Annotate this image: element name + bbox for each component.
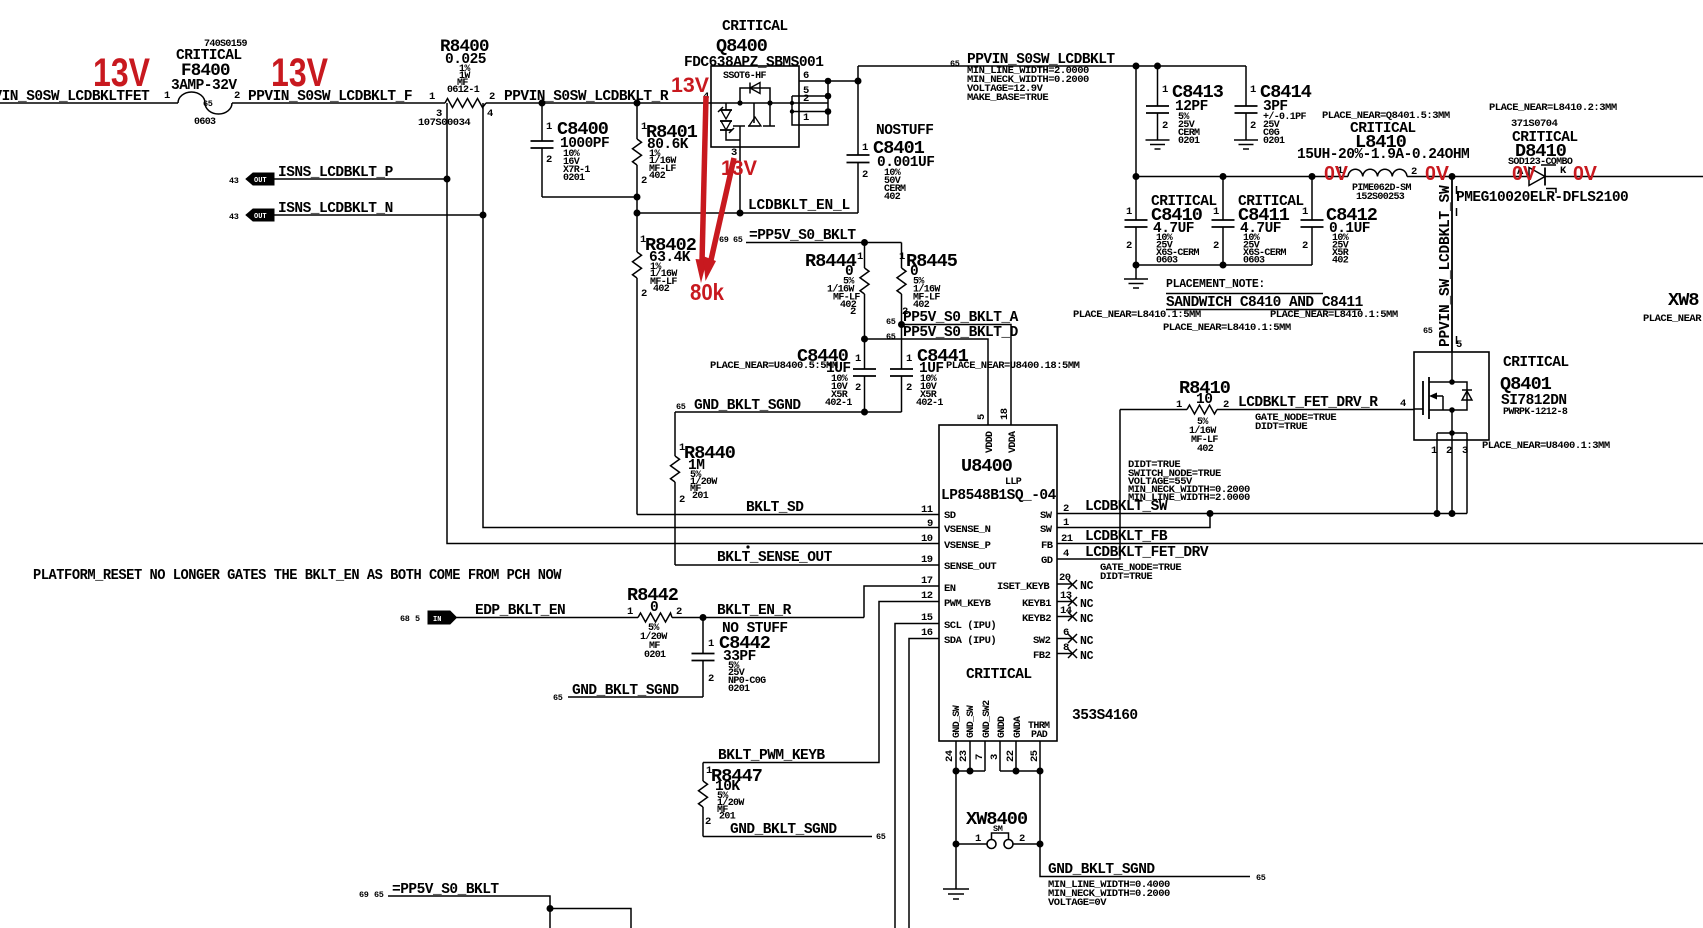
svg-text:BKLT_SENSE_OUT: BKLT_SENSE_OUT (717, 550, 833, 566)
svg-text:65: 65 (1423, 326, 1433, 336)
svg-text:80k: 80k (690, 279, 724, 305)
svg-text:69: 69 (719, 235, 729, 245)
connector OUT flag ISNS_LCDBKLT_N (229, 201, 483, 222)
svg-text:402: 402 (649, 171, 666, 182)
capacitor C8401 0.001UF NOSTUFF (847, 81, 935, 213)
svg-text:65: 65 (203, 99, 213, 109)
svg-text:4: 4 (487, 108, 493, 120)
svg-text:GND_SW: GND_SW (966, 705, 977, 738)
wire mid rail (inductor input) (1136, 176, 1348, 178)
svg-text:65: 65 (676, 402, 686, 412)
svg-text:65: 65 (876, 832, 886, 842)
capacitor C8400 1000PF (531, 103, 610, 197)
svg-text:402-1: 402-1 (916, 398, 943, 409)
svg-text:Q8400: Q8400 (716, 36, 768, 57)
svg-text:107S00034: 107S00034 (418, 117, 470, 129)
svg-text:0201: 0201 (644, 650, 666, 661)
svg-text:BKLT_SD: BKLT_SD (746, 500, 804, 516)
svg-text:1: 1 (975, 833, 981, 845)
capacitor C8412 0.1UF (1301, 177, 1378, 267)
Q8401 source (1429, 409, 1452, 411)
svg-text:2: 2 (850, 306, 856, 318)
node ISNS_LCDBKLT_N junction (480, 212, 487, 219)
svg-text:2: 2 (1250, 120, 1256, 132)
annotation red arrow (diagonal) (703, 158, 734, 281)
svg-text:13: 13 (1060, 590, 1072, 602)
svg-text:=PP5V_S0_BKLT: =PP5V_S0_BKLT (749, 228, 856, 244)
svg-text:NC: NC (1080, 580, 1094, 593)
svg-text:15: 15 (921, 612, 933, 624)
pin NC SW2 6 (1057, 634, 1077, 643)
svg-text:65: 65 (1256, 873, 1266, 883)
wire PPVIN_S0SW_LCDBKLT_F (232, 89, 445, 105)
svg-text:GD: GD (1041, 555, 1053, 567)
svg-text:SW: SW (1040, 524, 1053, 536)
svg-text:PLACE_NEAR=L8410.1:5MM: PLACE_NEAR=L8410.1:5MM (1073, 309, 1201, 321)
wire R8400 pin4 kelvin sense (vertical to VSENSE_N) (483, 103, 939, 528)
wire LCDBKLT_EN_L (637, 198, 858, 217)
svg-text:353S4160: 353S4160 (1072, 708, 1138, 724)
ground (XW8400 pin1) (943, 844, 969, 899)
capacitor C8441 1UF (890, 325, 1080, 413)
svg-text:15UH-20%-1.9A-0.24OHM: 15UH-20%-1.9A-0.24OHM (1297, 147, 1469, 163)
svg-text:IN: IN (433, 616, 441, 624)
fuse F8400 (164, 39, 247, 128)
svg-text:2: 2 (1213, 240, 1219, 252)
svg-text:2: 2 (803, 93, 809, 105)
wire =PP5V_S0_BKLT (bottom) (359, 882, 631, 928)
svg-text:0612-1: 0612-1 (447, 85, 480, 96)
wire GND_BKLT_SGND (C8442) (553, 683, 703, 703)
svg-text:LCDBKLT_EN_L: LCDBKLT_EN_L (748, 198, 850, 214)
svg-text:5: 5 (1456, 339, 1462, 351)
resistor R8442 0 (627, 585, 682, 661)
svg-text:PMEG10020ELR-DFLS2100: PMEG10020ELR-DFLS2100 (1456, 190, 1628, 206)
svg-text:4: 4 (1063, 548, 1069, 560)
svg-text:ISNS_LCDBKLT_P: ISNS_LCDBKLT_P (278, 165, 394, 181)
svg-text:2: 2 (906, 382, 912, 394)
svg-text:1: 1 (708, 638, 714, 650)
svg-text:DIDT=TRUE: DIDT=TRUE (1255, 421, 1307, 433)
wire PPVIN vertical to mid rail (1135, 66, 1137, 177)
Q8401 channel and gate bars (1428, 377, 1430, 419)
svg-text:ISET_KEYB: ISET_KEYB (997, 581, 1050, 593)
svg-text:SENSE_OUT: SENSE_OUT (944, 561, 996, 573)
svg-text:18: 18 (999, 408, 1011, 420)
svg-text:VSENSE_P: VSENSE_P (944, 540, 991, 552)
svg-text:0603: 0603 (194, 117, 216, 128)
node R8401 top junction (634, 100, 641, 107)
svg-text:10: 10 (1196, 392, 1212, 408)
svg-text:43: 43 (229, 212, 239, 222)
svg-text:7: 7 (974, 754, 986, 760)
svg-text:22: 22 (1005, 750, 1017, 762)
svg-text:2: 2 (705, 816, 711, 828)
jumper XW8400 (953, 771, 1044, 849)
svg-text:2: 2 (641, 175, 647, 187)
svg-text:13V: 13V (93, 51, 150, 95)
svg-text:PLACE_NEAR=L8410.2:3MM: PLACE_NEAR=L8410.2:3MM (1489, 102, 1617, 114)
svg-text:EDP_BKLT_EN: EDP_BKLT_EN (475, 603, 565, 619)
svg-text:2: 2 (489, 91, 495, 103)
svg-text:201: 201 (692, 491, 709, 502)
svg-text:402: 402 (1197, 444, 1214, 455)
svg-text:LP8548B1SQ_-04: LP8548B1SQ_-04 (941, 488, 1057, 504)
svg-text:SW: SW (1040, 510, 1053, 522)
svg-text:1: 1 (546, 121, 552, 133)
svg-text:MIN_LINE_WIDTH=2.0000: MIN_LINE_WIDTH=2.0000 (1128, 492, 1250, 504)
wire LCDBKLT_FET_DRV_R label (1238, 395, 1378, 433)
wire =PP5V_S0_BKLT (upper) (719, 228, 902, 246)
resistor R8402 63.4K (633, 213, 697, 515)
wire C8400 bottom to R8401 bottom (542, 196, 637, 198)
wire PPVIN_S0SW_LCDBKLT top rail (858, 52, 1246, 104)
wire Q8401 pin3 to LCDBKLT_SW (1466, 433, 1468, 514)
svg-text:OUT: OUT (254, 177, 267, 185)
op-amp U8400 LP8548B1SQ (backlight driver IC) (921, 408, 1073, 741)
svg-text:402: 402 (1332, 256, 1349, 267)
svg-text:5: 5 (415, 614, 420, 624)
svg-text:VSENSE_N: VSENSE_N (944, 524, 991, 536)
svg-text:GND_BKLT_SGND: GND_BKLT_SGND (1048, 862, 1155, 878)
svg-text:65: 65 (950, 59, 960, 69)
svg-text:21: 21 (1061, 533, 1073, 545)
placement note text (1073, 278, 1398, 334)
Q8401 body diode (1452, 382, 1467, 410)
svg-text:SSOT6-HF: SSOT6-HF (723, 71, 766, 82)
svg-text:4: 4 (1400, 398, 1406, 410)
svg-text:2: 2 (679, 494, 685, 506)
svg-text:GND_BKLT_SGND: GND_BKLT_SGND (730, 822, 837, 838)
svg-text:KEYB2: KEYB2 (1022, 613, 1051, 625)
svg-text:1: 1 (1302, 206, 1308, 218)
svg-text:65: 65 (374, 890, 384, 900)
svg-text:43: 43 (229, 176, 239, 186)
svg-text:EN: EN (944, 583, 956, 595)
capacitor C8414 3PF (1235, 66, 1312, 147)
svg-text:201: 201 (719, 812, 736, 823)
svg-text:371S0704: 371S0704 (1511, 118, 1558, 130)
node C8400 top junction (539, 100, 546, 107)
svg-text:1: 1 (1063, 517, 1069, 529)
wire PPVIN_SW_LCDBKLT_SW vertical (1423, 177, 1462, 353)
svg-text:2: 2 (1302, 240, 1308, 252)
svg-text:402: 402 (653, 284, 670, 295)
svg-text:PPVIN_S0SW_LCDBKLT_R: PPVIN_S0SW_LCDBKLT_R (504, 89, 669, 105)
svg-text:SW2: SW2 (1033, 635, 1051, 647)
svg-text:1: 1 (1250, 84, 1256, 96)
svg-text:1: 1 (1431, 445, 1437, 457)
svg-text:PLATFORM_RESET NO LONGER GATES: PLATFORM_RESET NO LONGER GATES THE BKLT_… (33, 568, 562, 584)
svg-text:GNDD: GNDD (997, 716, 1008, 738)
svg-text:PP5V_S0_BKLT_A: PP5V_S0_BKLT_A (903, 310, 1019, 326)
svg-text:1: 1 (857, 251, 863, 263)
svg-text:0V: 0V (1512, 163, 1537, 185)
svg-text:1: 1 (906, 353, 912, 365)
resistor R8440 1M (671, 412, 736, 565)
capacitor C8410 4.7UF (1125, 177, 1217, 267)
svg-text:2: 2 (1063, 503, 1069, 515)
node (637,197) junction (634, 194, 641, 201)
inductor L8410 15UH (1297, 110, 1469, 203)
svg-text:2: 2 (862, 169, 868, 181)
svg-text:DIDT=TRUE: DIDT=TRUE (1100, 571, 1152, 583)
svg-text:1: 1 (1176, 399, 1182, 411)
svg-text:402-1: 402-1 (825, 398, 852, 409)
annotation red arrow (long) (696, 96, 708, 283)
svg-text:BKLT_EN_R: BKLT_EN_R (717, 603, 792, 619)
svg-text:1: 1 (1126, 206, 1132, 218)
wire SCL to bottom edge (895, 624, 939, 928)
svg-text:3AMP-32V: 3AMP-32V (171, 78, 237, 94)
svg-text:PLACE_NEAR=L8410.1:5MM: PLACE_NEAR=L8410.1:5MM (1270, 309, 1398, 321)
resistor R8400 0.025 (418, 37, 495, 129)
svg-text:VOLTAGE=0V: VOLTAGE=0V (1048, 897, 1107, 909)
ground (C8414) (1234, 140, 1258, 149)
diode D8410 PMEG10020ELR (1456, 102, 1628, 206)
capacitor C8442 33PF NO STUFF (692, 618, 788, 698)
svg-text:2: 2 (1019, 833, 1025, 845)
Q8400 internal zener pair (725, 103, 727, 110)
svg-text:0201: 0201 (563, 173, 585, 184)
svg-text:12: 12 (921, 590, 933, 602)
svg-text:1: 1 (855, 353, 861, 365)
Q8401 substrate arrow (1432, 395, 1443, 397)
pin NC KEYB2 14 (1057, 612, 1077, 621)
svg-text:0V: 0V (1425, 163, 1450, 185)
svg-text:3: 3 (989, 754, 1001, 760)
svg-text:LLP: LLP (1005, 477, 1022, 488)
svg-text:PPVIN_S0SW_LCDBKLT_F: PPVIN_S0SW_LCDBKLT_F (248, 89, 412, 105)
svg-text:65: 65 (886, 317, 896, 327)
svg-text:NC: NC (1080, 598, 1094, 611)
wire LCDBKLT_FB (1057, 529, 1703, 545)
svg-text:CRITICAL: CRITICAL (966, 667, 1032, 683)
wire Q8400 drain to top net (857, 66, 859, 81)
svg-text:LCDBKLT_FB: LCDBKLT_FB (1085, 529, 1168, 545)
wire GND_BKLT_SGND (mid) (675, 398, 902, 416)
wire U8400 ground pins (944, 741, 1044, 775)
svg-text:XW8: XW8 (1668, 290, 1699, 311)
svg-text:16: 16 (921, 627, 933, 639)
svg-text:2: 2 (676, 606, 682, 618)
svg-text:9: 9 (927, 518, 933, 530)
ground (C8413) (1146, 140, 1170, 149)
svg-text:65: 65 (886, 332, 896, 342)
svg-text:0201: 0201 (1263, 136, 1285, 147)
connector IN flag EDP_BKLT_EN (400, 603, 638, 624)
Q8400 pin 3 (739, 147, 741, 213)
wire BKLT_PWM_KEYB (703, 602, 939, 765)
wire GND_BKLT_SGND (XW8400 pin2) (1040, 844, 1266, 909)
svg-text:LCDBKLT_FET_DRV: LCDBKLT_FET_DRV (1085, 545, 1209, 561)
svg-text:0201: 0201 (1178, 136, 1200, 147)
ground (main caps) (1124, 265, 1148, 288)
svg-text:BKLT_PWM_KEYB: BKLT_PWM_KEYB (718, 748, 825, 764)
Q8401 source bar to pins 1,2,3 (1451, 410, 1453, 433)
pin NC FB2 8 (1057, 649, 1077, 658)
capacitor C8411 4.7UF (1212, 177, 1304, 267)
svg-text:2: 2 (641, 288, 647, 300)
svg-text:NC: NC (1080, 635, 1094, 648)
wire PPVIN_S0SW_LCDBKLTFET (top-left rail into fuse) (0, 89, 178, 105)
resistor R8445 0 (897, 243, 958, 325)
node (637,213) junction (634, 210, 641, 217)
svg-text:VDDD: VDDD (985, 431, 996, 453)
svg-text:SCL (IPU): SCL (IPU) (944, 620, 996, 632)
svg-text:5: 5 (976, 414, 988, 420)
svg-text:2: 2 (708, 673, 714, 685)
wire PP5V_S0_BKLT_A (886, 310, 1019, 425)
svg-text:GNDA: GNDA (1013, 716, 1024, 738)
svg-text:MAKE_BASE=TRUE: MAKE_BASE=TRUE (967, 92, 1048, 104)
svg-text:25: 25 (1029, 750, 1041, 762)
svg-text:Q8401: Q8401 (1500, 374, 1552, 395)
pin NC ISET_KEYB 20 (1057, 580, 1077, 589)
svg-text:PAD: PAD (1031, 730, 1048, 741)
svg-text:17: 17 (921, 575, 933, 587)
svg-text:NOSTUFF: NOSTUFF (876, 123, 933, 139)
svg-text:2: 2 (1223, 399, 1229, 411)
svg-text:65: 65 (733, 235, 743, 245)
wire mid rail after inductor (1407, 176, 1529, 178)
capacitor C8440 1UF (710, 339, 876, 412)
svg-text:SDA (IPU): SDA (IPU) (944, 635, 996, 647)
svg-text:2: 2 (1162, 120, 1168, 132)
transistor Q8401 SI7812DN (1400, 352, 1610, 457)
wire R8400 pin3 kelvin sense (vertical to VSENSE_P) (447, 103, 939, 544)
wire mid rail to right edge (1545, 176, 1703, 178)
svg-text:13V: 13V (671, 74, 709, 97)
wire LCDBKLT_FET_DRV (1057, 410, 1209, 584)
svg-text:19: 19 (921, 554, 933, 566)
wire Q8401 pin2 to LCDBKLT_SW (1451, 433, 1453, 514)
svg-text:1: 1 (164, 90, 170, 102)
svg-text:20: 20 (1059, 572, 1071, 584)
svg-text:14: 14 (1060, 605, 1072, 617)
svg-text:PWM_KEYB: PWM_KEYB (944, 598, 992, 610)
net properties LCDBKLT_SW (1128, 459, 1250, 504)
svg-text:ISNS_LCDBKLT_N: ISNS_LCDBKLT_N (278, 201, 393, 217)
svg-text:0V: 0V (1324, 163, 1349, 185)
wire BKLT_SENSE_OUT (675, 545, 939, 566)
svg-text:PLACE_NEAR=L8410.1:5MM: PLACE_NEAR=L8410.1:5MM (1163, 322, 1291, 334)
svg-text:2: 2 (1126, 240, 1132, 252)
svg-text:PLACE_NEAR: PLACE_NEAR (1643, 313, 1702, 325)
svg-text:GND_SW: GND_SW (952, 705, 963, 738)
svg-text:FB: FB (1041, 540, 1054, 552)
wire BKLT_EN_R (672, 603, 864, 621)
svg-text:OUT: OUT (254, 213, 267, 221)
node ISNS_LCDBKLT_P junction (444, 176, 451, 183)
Q8400 gate line pin 4 (711, 102, 770, 104)
capacitor C8413 12PF (1146, 66, 1224, 147)
svg-text:GND_SW2: GND_SW2 (982, 700, 993, 738)
Q8400 internal MOSFET (753, 103, 755, 123)
svg-text:LCDBKLT_FET_DRV_R: LCDBKLT_FET_DRV_R (1238, 395, 1378, 411)
svg-text:1: 1 (899, 251, 905, 263)
connector OUT flag ISNS_LCDBKLT_P (229, 165, 447, 186)
svg-text:6: 6 (803, 70, 809, 82)
svg-text:PLACEMENT_NOTE:: PLACEMENT_NOTE: (1166, 278, 1265, 291)
Q8401 pin5 drain entry (1451, 352, 1453, 382)
svg-text:8: 8 (1063, 642, 1069, 654)
wire Q8401 pin1 to LCDBKLT_SW (1436, 433, 1438, 514)
svg-text:2: 2 (234, 90, 240, 102)
resistor R8447 10K (699, 763, 763, 837)
svg-text:68: 68 (400, 614, 410, 624)
svg-text:1: 1 (627, 606, 633, 618)
svg-text:2: 2 (1446, 445, 1452, 457)
svg-text:65: 65 (553, 693, 563, 703)
svg-text:NC: NC (1080, 650, 1094, 663)
resistor R8401 80.6K (633, 103, 698, 213)
pin NC KEYB1 13 (1057, 597, 1077, 606)
svg-text:1: 1 (1162, 84, 1168, 96)
svg-text:CRITICAL: CRITICAL (722, 19, 788, 35)
wire LCDBKLT_SW (1057, 499, 1467, 517)
svg-text:PPVIN_SW_LCDBKLT_SW: PPVIN_SW_LCDBKLT_SW (1438, 185, 1454, 347)
resistor R8410 10 (1120, 378, 1414, 455)
svg-text:2: 2 (855, 382, 861, 394)
svg-text:1: 1 (429, 91, 435, 103)
svg-text:6: 6 (1063, 627, 1069, 639)
svg-text:0: 0 (650, 600, 658, 616)
wire PPVIN_S0SW_LCDBKLT_R (486, 89, 711, 105)
wire PP5V_S0_BKLT_D (861, 325, 1019, 425)
svg-text:NC: NC (1080, 613, 1094, 626)
svg-text:152S00253: 152S00253 (1356, 192, 1405, 203)
wire GND_BKLT_SGND (R8447) (703, 822, 886, 842)
resistor R8444 0 (805, 243, 869, 339)
svg-text:10: 10 (921, 533, 933, 545)
wire SW pin1 of U8400 (1057, 514, 1210, 528)
svg-text:1: 1 (862, 142, 868, 154)
svg-text:U8400: U8400 (961, 456, 1013, 477)
svg-text:VDDA: VDDA (1008, 431, 1019, 453)
svg-text:FB2: FB2 (1033, 650, 1051, 662)
svg-text:13V: 13V (721, 157, 757, 180)
wire EN to U8400 (864, 586, 939, 618)
svg-text:PLACE_NEAR=U8400.5:5MM: PLACE_NEAR=U8400.5:5MM (710, 360, 838, 372)
svg-text:CRITICAL: CRITICAL (1503, 355, 1569, 371)
svg-text:69: 69 (359, 890, 369, 900)
Q8400 right pin bus (799, 80, 858, 82)
wire SDA to bottom edge (909, 639, 939, 928)
svg-text:402: 402 (884, 192, 901, 203)
svg-text:PLACE_NEAR=U8400.18:5MM: PLACE_NEAR=U8400.18:5MM (946, 360, 1080, 372)
svg-text:0201: 0201 (728, 684, 750, 695)
svg-text:2: 2 (546, 154, 552, 166)
svg-text:KEYB1: KEYB1 (1022, 598, 1051, 610)
wire cap bottom rail (1136, 264, 1312, 266)
svg-text:1: 1 (803, 112, 809, 124)
svg-text:0V: 0V (1573, 163, 1598, 185)
wire BKLT_SD (637, 500, 939, 516)
svg-text:23: 23 (958, 750, 970, 762)
svg-text:24: 24 (944, 750, 956, 762)
svg-text:PLACE_NEAR=U8400.1:3MM: PLACE_NEAR=U8400.1:3MM (1482, 440, 1610, 452)
svg-text:1: 1 (1213, 206, 1219, 218)
svg-text:PWRPK-1212-8: PWRPK-1212-8 (1503, 407, 1568, 418)
Q8400 top body diode loop (740, 88, 770, 103)
transistor Q8400 FDC638APZ dual-FET (684, 19, 858, 213)
svg-text:FDC638APZ_SBMS001: FDC638APZ_SBMS001 (684, 55, 824, 71)
svg-text:SD: SD (944, 510, 956, 522)
